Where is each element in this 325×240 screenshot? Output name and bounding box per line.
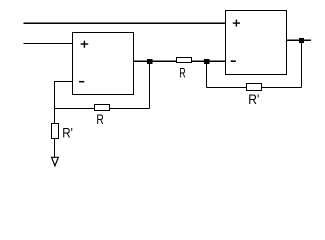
resistor R' feedback right (247, 84, 262, 91)
node B junction dot (204, 59, 210, 64)
wire U1 inverting input (55, 82, 73, 124)
resistor R bottom-left (95, 105, 110, 111)
resistor R' left vertical (52, 124, 59, 139)
wire output node down to feedback (301, 40, 303, 87)
node A junction dot (147, 59, 153, 64)
wire U2 output (287, 39, 312, 41)
resistor R middle (177, 58, 192, 63)
minus U1 (79, 81, 84, 83)
wire node A down to feedback (149, 61, 151, 108)
wire R' to ground (54, 139, 56, 158)
wire feedback bottom U1 (55, 108, 150, 110)
op-amp U2 (226, 11, 287, 75)
wire U1 output to node A (134, 60, 177, 62)
plus U1 (81, 41, 89, 48)
minus U2 (231, 60, 236, 62)
svg-text:R: R (179, 64, 186, 80)
ground (52, 157, 59, 166)
wire R to node B to U2 inverting input (192, 60, 226, 62)
output node junction dot (299, 38, 304, 43)
op-amp U1 (73, 33, 134, 95)
plus U2 (233, 20, 240, 27)
svg-text:R': R' (248, 91, 259, 107)
svg-text:R': R' (62, 125, 73, 141)
wire top input to op-amp U2 + (24, 22, 226, 24)
wire input to op-amp U1 + (24, 43, 73, 45)
wire feedback bottom U2 (207, 87, 302, 89)
svg-text:R: R (96, 111, 103, 127)
wire node B down (206, 61, 208, 87)
